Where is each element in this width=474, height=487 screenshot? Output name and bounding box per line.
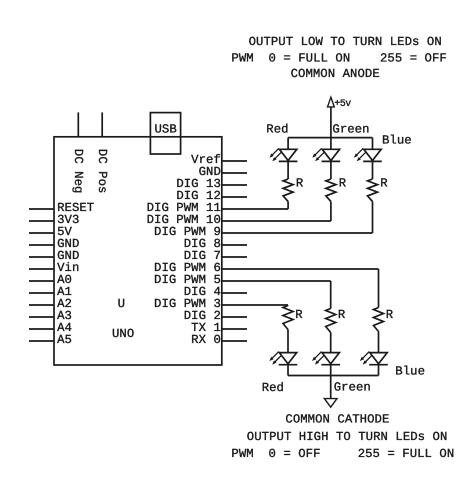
wire bus to LED Green top	[330, 138, 332, 150]
LED Green top	[312, 148, 340, 161]
wire pin DIG PWM 10 net	[222, 220, 331, 222]
wire LED to resistor Blue top	[372, 161, 374, 179]
LED Blue bottom	[360, 352, 388, 365]
wire +5v to bus	[330, 107, 332, 138]
svg-text:PWM 0 = FULL ON 255 = OFF: PWM 0 = FULL ON 255 = OFF	[231, 52, 446, 66]
pin stub A3	[29, 316, 54, 318]
svg-text:COMMON ANODE: COMMON ANODE	[291, 67, 380, 81]
wire pin DIG PWM 11 net	[222, 208, 288, 210]
pin stub GND	[222, 172, 247, 174]
pin stub TX 1	[222, 328, 247, 330]
svg-text:Blue: Blue	[382, 134, 412, 148]
resistor R Red top	[283, 179, 293, 202]
svg-text:R: R	[386, 308, 394, 322]
pin stub RESET	[29, 208, 54, 210]
pin stub DIG 13	[222, 184, 247, 186]
wire pin to resistor Red bottom	[287, 304, 289, 307]
wire pin DIG PWM 6 net	[222, 268, 379, 270]
wire anode bus	[288, 137, 372, 139]
wire pin DIG PWM 3 net	[222, 304, 288, 306]
pin stub Vref	[222, 160, 247, 162]
svg-text:UNO: UNO	[112, 327, 134, 341]
svg-text:RX 0: RX 0	[191, 333, 221, 347]
svg-text:OUTPUT HIGH TO TURN LEDs ON: OUTPUT HIGH TO TURN LEDs ON	[247, 430, 448, 444]
pin stub GND	[29, 244, 54, 246]
svg-text:R: R	[296, 177, 304, 191]
resistor R Green top	[326, 179, 336, 202]
svg-text:Red: Red	[266, 123, 288, 137]
wire cathode bus	[288, 375, 379, 377]
LED Blue top	[354, 148, 382, 161]
pin DC Neg wire	[77, 112, 79, 136]
wire LED to resistor Red top	[287, 161, 289, 179]
wire resistor to LED Red bottom	[287, 330, 289, 353]
wire LED to bus Blue bottom	[378, 365, 380, 376]
wire pin to resistor Green bottom	[330, 281, 332, 309]
pin stub RX 0	[222, 340, 247, 342]
pin stub 5V	[29, 232, 54, 234]
svg-text:R: R	[295, 308, 303, 322]
svg-text:DC Pos: DC Pos	[95, 149, 109, 194]
pin stub 3V3	[29, 220, 54, 222]
svg-text:+5v: +5v	[334, 99, 351, 110]
pin stub A5	[29, 340, 54, 342]
svg-text:Green: Green	[334, 381, 371, 395]
wire LED to resistor Green top	[330, 161, 332, 179]
wire bus to cathode symbol	[330, 376, 332, 399]
wire resistor to pin Blue top	[372, 202, 374, 234]
pin stub A4	[29, 328, 54, 330]
wire pin DIG PWM 9 net	[222, 232, 373, 234]
svg-text:DC Neg: DC Neg	[71, 149, 85, 194]
svg-text:Red: Red	[262, 381, 284, 395]
pin stub Vin	[29, 268, 54, 270]
pin stub DIG 7	[222, 256, 247, 258]
pin DC Pos wire	[101, 112, 103, 136]
svg-text:Blue: Blue	[395, 365, 425, 379]
svg-text:USB: USB	[155, 122, 177, 136]
svg-text:U: U	[118, 297, 125, 311]
pin stub A0	[29, 280, 54, 282]
USB connector	[150, 113, 180, 154]
wire LED to bus Green bottom	[330, 365, 332, 376]
wire resistor to LED Blue bottom	[378, 332, 380, 353]
pin stub DIG 12	[222, 196, 247, 198]
wire resistor to pin Green top	[330, 202, 332, 222]
LED Red top	[270, 148, 298, 161]
pin stub DIG 8	[222, 244, 247, 246]
pin stub A1	[29, 292, 54, 294]
svg-text:OUTPUT LOW TO TURN LEDs ON: OUTPUT LOW TO TURN LEDs ON	[249, 35, 442, 49]
pin stub A2	[29, 304, 54, 306]
svg-text:COMMON CATHODE: COMMON CATHODE	[285, 412, 389, 426]
svg-text:Green: Green	[332, 123, 369, 137]
common cathode ground symbol	[324, 399, 337, 408]
svg-text:PWM 0 = OFF 255 = FULL ON: PWM 0 = OFF 255 = FULL ON	[231, 447, 454, 461]
+5v supply symbol	[328, 97, 335, 107]
svg-text:R: R	[338, 308, 346, 322]
LED Green bottom	[312, 352, 340, 365]
resistor R Green bottom	[326, 309, 336, 333]
pin stub DIG 4	[222, 292, 247, 294]
wire pin DIG PWM 5 net	[222, 280, 331, 282]
pin stub DIG 2	[222, 316, 247, 318]
resistor R Blue top	[368, 179, 378, 202]
wire bus to LED Red top	[287, 138, 289, 150]
LED Red bottom	[269, 352, 297, 365]
pin stub GND	[29, 256, 54, 258]
svg-text:A5: A5	[57, 333, 72, 347]
svg-text:R: R	[380, 177, 388, 191]
wire pin to resistor Blue bottom	[378, 269, 380, 308]
resistor R Blue bottom	[374, 308, 384, 332]
wire bus to LED Blue top	[372, 138, 374, 150]
svg-text:R: R	[339, 177, 347, 191]
resistor R Red bottom	[283, 306, 293, 330]
wire resistor to LED Green bottom	[330, 333, 332, 353]
wire resistor to pin Red top	[287, 202, 289, 210]
wire LED to bus Red bottom	[287, 365, 289, 376]
Arduino UNO body U	[54, 137, 222, 365]
